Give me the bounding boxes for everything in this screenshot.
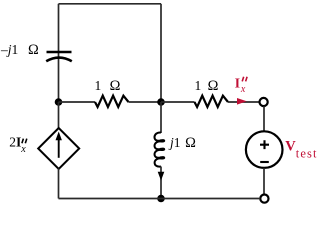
wire: R2 to terminal [228,101,259,103]
minus sign [260,161,269,163]
wire: inductor to node C [160,167,162,199]
arrow inside diamond (up) [58,139,60,158]
wire: diamond down to bottom wire [58,169,60,199]
current arrow Ix (red) [237,98,247,105]
wire: left vertical through capacitor [58,4,60,102]
voltage source U1 circle [246,131,283,168]
wire: node A down to diamond [58,102,60,129]
svg-text:I: I [235,75,240,90]
svg-text:x: x [20,144,26,155]
svg-text:–j1 Ω: –j1 Ω [0,42,39,58]
wire: node B to R2 [161,101,195,103]
terminal T2 open circle [260,195,268,203]
svg-text:x: x [240,84,246,95]
svg-text:1 Ω: 1 Ω [95,78,121,94]
wire: node B down to inductor [160,102,162,133]
inductor L1 coil [154,132,164,166]
wire: node A to R1 [59,101,96,103]
svg-text:1 Ω: 1 Ω [195,78,219,94]
capacitor C1 bottom curved plate [46,58,72,62]
resistor R2 zigzag [195,96,229,107]
terminal T1 open circle [260,98,268,106]
resistor R1 zigzag [95,96,129,107]
wire: top horizontal [59,3,162,5]
dependent current source D1 diamond [38,128,79,169]
arrowhead: current direction down [158,172,165,181]
plus sign [260,140,269,149]
svg-text:2I: 2I [9,135,21,150]
wire: bottom horizontal [59,198,261,200]
node B junction dot [157,98,165,106]
node C junction dot [157,195,165,203]
wire: R1 to node B [129,101,162,103]
svg-text:Vtest: Vtest [285,138,317,160]
svg-text:j1 Ω: j1 Ω [168,135,196,151]
capacitor C1 top plate [47,51,72,54]
wire: T1 down to source [263,106,265,131]
node A junction dot [55,98,63,106]
wire: middle vertical from top [160,4,162,102]
wire: source down to T2 [263,168,265,195]
